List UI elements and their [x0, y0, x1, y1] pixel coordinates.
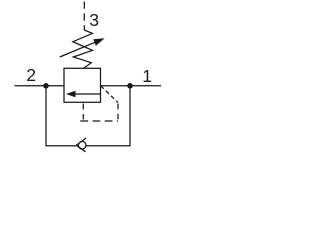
- pilot line left vertical dashed: [82, 104, 84, 120]
- svg-text:3: 3: [89, 10, 99, 30]
- svg-text:1: 1: [142, 66, 152, 86]
- pilot port 3 dashed line: [83, 2, 85, 26]
- pilot line right vertical dashed: [117, 104, 119, 122]
- left riser wire and bottom wire left segment: [46, 86, 77, 146]
- flow path arrowhead: [66, 91, 76, 98]
- junction dot left: [43, 83, 49, 89]
- valve body U1: [64, 68, 101, 102]
- junction dot right: [127, 83, 133, 89]
- port 2 wire: [15, 85, 65, 87]
- pilot line bottom horizontal dashed: [80, 120, 118, 122]
- svg-text:2: 2: [26, 65, 36, 85]
- flow path arrow line: [75, 93, 101, 95]
- spring adjustment arrow shaft: [60, 42, 97, 57]
- check valve ball circle: [78, 141, 86, 149]
- spring: [73, 26, 93, 69]
- port 1 wire: [101, 85, 162, 87]
- check valve seat: [76, 138, 86, 152]
- pilot line diagonal dashed: [101, 86, 118, 103]
- right riser wire and bottom wire right segment: [86, 86, 130, 146]
- spring adjustment arrowhead: [93, 38, 105, 45]
